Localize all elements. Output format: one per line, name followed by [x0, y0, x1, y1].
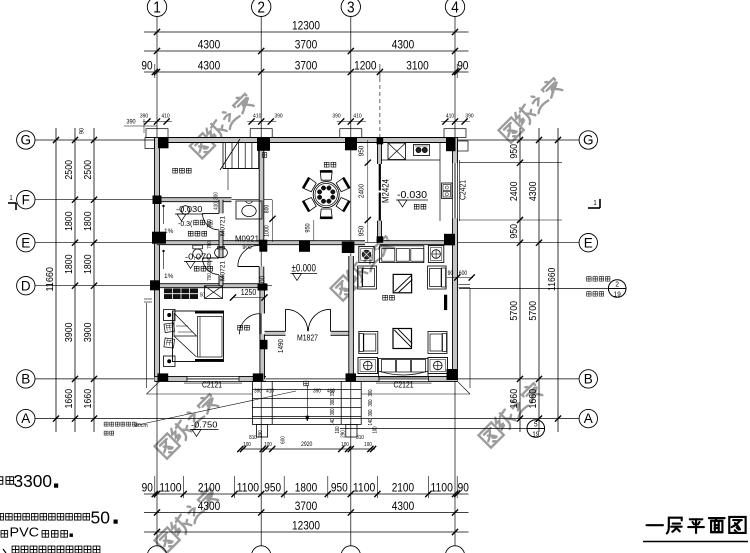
pier right of NE corner: [458, 141, 469, 151]
svg-text:12300: 12300: [292, 519, 320, 533]
window C2121 living: [376, 376, 432, 383]
label kitchen: [414, 204, 426, 209]
right dim extension stubs: [459, 163, 562, 220]
svg-text:5700: 5700: [528, 301, 539, 321]
pillow north: [164, 323, 175, 333]
porch small dims above: [254, 389, 335, 395]
toilet lower bath: [193, 245, 203, 258]
column bedroom east mid: [260, 340, 268, 350]
junction block kitchen wall at E: [377, 236, 384, 242]
svg-text:390: 390: [274, 114, 282, 120]
svg-text:100: 100: [373, 426, 379, 433]
svg-text:-0.750: -0.750: [191, 421, 218, 430]
svg-text:C2421: C2421: [459, 180, 468, 200]
kitchen sink: [442, 183, 453, 199]
svg-text:1100: 1100: [431, 480, 454, 494]
axis circle G left: [17, 131, 35, 149]
svg-text:600: 600: [459, 271, 468, 277]
svg-text:A: A: [584, 411, 593, 426]
svg-text:1200: 1200: [354, 59, 377, 73]
wall east along axis 4: [453, 138, 458, 382]
bed: [173, 311, 224, 362]
side table crosscircle BL: [358, 358, 378, 374]
interior dim 950 dining: [305, 220, 314, 241]
svg-text:290: 290: [341, 430, 347, 438]
column G2: [257, 138, 270, 151]
label M1827: [297, 334, 318, 343]
pier top axis1: [146, 129, 168, 138]
svg-text:290: 290: [258, 430, 264, 438]
interior dim 1490 hall: [276, 339, 285, 353]
svg-text:300: 300: [214, 192, 220, 200]
interior dim 800 1000: [265, 200, 276, 242]
svg-text:A: A: [21, 411, 30, 426]
note line1: [0, 471, 58, 491]
column G4: [446, 138, 456, 151]
interior dim 1250 bedroom: [230, 288, 268, 301]
section mark 1 left: [8, 195, 16, 210]
axis circle 3 top: [341, 0, 360, 17]
svg-text:1660: 1660: [528, 389, 539, 409]
svg-text:M2424: M2424: [381, 179, 391, 203]
kitchen hood/fridge: [388, 143, 406, 160]
watermark tuzhizhijia at 187.7,425.3: [154, 392, 221, 459]
label bathroom upper: [188, 231, 206, 236]
svg-text:11660: 11660: [45, 267, 56, 292]
dimension row bottom 4300-3700-4300: [144, 499, 469, 516]
svg-text:C2121: C2121: [394, 381, 414, 390]
svg-text:1%: 1%: [164, 228, 174, 235]
svg-text:4300: 4300: [392, 499, 415, 513]
svg-text:3900: 3900: [64, 322, 75, 342]
svg-text:3800: 3800: [258, 276, 267, 290]
svg-text:1800: 1800: [83, 254, 94, 274]
door M0721 upper bath: [203, 213, 220, 230]
porch steps outline: [252, 381, 361, 424]
axis circle 3 bottom: [341, 546, 360, 553]
cabinet X bedroom: [205, 286, 223, 299]
svg-text:600: 600: [281, 436, 287, 444]
column E1: [152, 232, 166, 244]
axis circle 1 bottom: [147, 546, 166, 553]
axis circle 4 top: [445, 0, 464, 17]
axis circle A right: [579, 409, 597, 427]
svg-text:1: 1: [9, 195, 12, 202]
nightstand north: [164, 310, 176, 321]
svg-text:90: 90: [458, 480, 470, 494]
svg-text:950: 950: [357, 226, 366, 237]
svg-text:390: 390: [140, 114, 148, 120]
stairs: [220, 139, 259, 190]
column B1: [158, 373, 169, 381]
svg-text:-0.030: -0.030: [397, 190, 428, 201]
dimension column right first: [509, 128, 523, 432]
label 900 M0921: [242, 244, 252, 251]
axis circle A left: [17, 409, 35, 427]
svg-text:950: 950: [357, 146, 366, 157]
watermark tuzhizhijia at 531.7,109.3: [498, 76, 565, 143]
svg-text:950: 950: [509, 144, 520, 159]
svg-text:1100: 1100: [237, 480, 260, 494]
svg-text:4300: 4300: [198, 499, 221, 513]
svg-text:2400: 2400: [357, 184, 366, 198]
label M0921 hall: [235, 234, 259, 244]
svg-text:B: B: [584, 372, 593, 387]
svg-text:410: 410: [446, 114, 454, 120]
svg-text:F: F: [22, 192, 30, 207]
watermark tuzhizhijia at 223,125: [189, 92, 256, 159]
axis line F horizontal: [35, 199, 272, 201]
svg-text:300: 300: [368, 399, 374, 406]
coffee table south: [393, 329, 412, 349]
level -0.030 upper bath: [175, 205, 203, 221]
axis line 4 vertical: [454, 17, 456, 546]
svg-text:950: 950: [305, 223, 312, 233]
svg-text:4300: 4300: [528, 181, 539, 201]
label M2424 kitchen: [381, 179, 391, 203]
label living room: [383, 295, 395, 300]
svg-text:1250: 1250: [241, 288, 257, 297]
svg-text:M0921: M0921: [235, 234, 259, 244]
svg-text:G: G: [21, 133, 32, 148]
dimension row bottom sub: [142, 476, 470, 498]
note porch protrusion: [104, 391, 296, 435]
pier top axis2: [250, 129, 272, 138]
svg-text:410: 410: [266, 389, 274, 395]
axis line D horizontal: [35, 285, 272, 287]
svg-text:1000: 1000: [265, 225, 271, 237]
svg-text:1800: 1800: [83, 211, 94, 231]
porch down arrow: [304, 381, 309, 421]
washbasin hall nook: [236, 201, 262, 219]
armchair NW: [358, 266, 377, 289]
axis line G horizontal: [35, 139, 579, 141]
axis line B horizontal: [35, 378, 579, 380]
window C2121 bedroom: [184, 376, 242, 383]
svg-text:100: 100: [341, 442, 349, 448]
label C2421 kitchen: [459, 180, 468, 200]
wall bedroom east: [260, 286, 265, 379]
porch dims below: [237, 430, 376, 452]
wall hallway west bathrooms east: [219, 200, 223, 286]
apron dim 90-600: [447, 271, 475, 281]
svg-text:19: 19: [532, 430, 539, 439]
svg-text:410: 410: [161, 114, 169, 120]
label C2121 living: [394, 381, 414, 390]
svg-text:4300: 4300: [392, 38, 415, 52]
pillow south: [164, 338, 175, 348]
svg-text:300: 300: [330, 398, 336, 405]
axis line 1 vertical: [156, 17, 158, 546]
svg-text:4300: 4300: [198, 38, 221, 52]
coffee table north: [393, 274, 412, 292]
svg-text:100: 100: [364, 442, 372, 448]
axis circle 1 top: [147, 0, 166, 17]
stairs small dims: [209, 192, 220, 228]
kitchen stove: [414, 145, 430, 156]
svg-text:1660: 1660: [64, 389, 75, 409]
label -0.3 structure: [178, 220, 209, 228]
svg-text:390: 390: [254, 389, 262, 395]
dimension row top 12300: [144, 19, 469, 55]
top pier dims axis2: [247, 114, 282, 125]
dining table with chairs: [303, 171, 350, 218]
svg-text:E: E: [21, 235, 30, 250]
svg-text:390: 390: [368, 389, 374, 396]
column E4: [444, 234, 455, 246]
watermark tuzhizhijia at 511.7,414.3: [478, 381, 545, 448]
svg-text:1800: 1800: [64, 254, 75, 274]
slope 1% upper: [163, 205, 174, 235]
label shang up: [262, 153, 267, 158]
column G3: [345, 138, 357, 151]
svg-text:800: 800: [265, 204, 271, 213]
label bathroom lower: [194, 266, 212, 271]
svg-text:19: 19: [614, 290, 621, 299]
svg-text:3900: 3900: [83, 322, 94, 342]
svg-text:300: 300: [330, 408, 336, 415]
svg-text:1: 1: [153, 0, 161, 16]
svg-text:90: 90: [79, 128, 86, 135]
side table plant TL: [359, 246, 374, 262]
svg-text:910: 910: [207, 219, 213, 227]
pier top axis3: [340, 129, 362, 138]
door M0921 hall: [238, 245, 259, 266]
label storage room: [173, 168, 191, 173]
svg-text:410: 410: [327, 389, 335, 395]
svg-text:410: 410: [214, 202, 220, 210]
svg-text:1%: 1%: [164, 273, 174, 280]
apron west: [144, 299, 252, 394]
column E2: [259, 240, 267, 252]
dimension row top sub: [141, 59, 468, 140]
washbasin lower bath: [215, 246, 228, 257]
top pier dims axis1: [140, 114, 172, 125]
svg-text:4: 4: [451, 0, 459, 16]
watermark tuzhizhijia at 187.7,519.3: [154, 486, 221, 553]
note line2: [0, 508, 118, 528]
svg-text:50: 50: [91, 508, 111, 528]
axis line A horizontal: [35, 418, 579, 420]
svg-text:B: B: [21, 372, 30, 387]
dimension column right second: [528, 128, 542, 432]
svg-text:2100: 2100: [198, 480, 221, 494]
svg-text:5700: 5700: [509, 301, 520, 321]
axis circle B left: [17, 370, 35, 388]
wall south bedroom along B: [155, 376, 267, 381]
label M0721 lower: [220, 261, 227, 281]
wall interior D bedroom north: [157, 284, 266, 288]
dimension column left x=94.0: [83, 128, 97, 432]
svg-text:140: 140: [368, 418, 374, 425]
svg-text:3700: 3700: [295, 38, 318, 52]
svg-text:100: 100: [243, 442, 251, 448]
svg-text:1800: 1800: [64, 211, 75, 231]
armchair NE: [428, 266, 447, 289]
loveseat north: [380, 246, 424, 263]
column B2: [253, 373, 263, 381]
svg-text:950: 950: [331, 480, 348, 494]
svg-text:90: 90: [457, 59, 469, 73]
column B4: [447, 369, 458, 380]
wall interior axis2 vertical: [259, 140, 264, 286]
svg-text:390: 390: [126, 119, 136, 126]
svg-text:950: 950: [264, 480, 281, 494]
axis circle B right: [579, 370, 597, 388]
axis line 3 vertical: [350, 17, 352, 546]
door bedroom: [239, 314, 260, 335]
top pier dims axis3: [332, 114, 365, 125]
column D2: [258, 284, 268, 291]
svg-text:140: 140: [330, 418, 336, 425]
label C2121 bedroom: [202, 381, 222, 390]
level -0.070 lower bath: [184, 253, 212, 269]
svg-text:D: D: [21, 278, 31, 293]
pier top axis4: [444, 129, 466, 138]
porch pier base right: [346, 424, 357, 437]
wall interior E bathrooms: [157, 241, 264, 245]
svg-text:1490: 1490: [276, 339, 285, 353]
note line3: [1, 526, 73, 540]
title yiceng pingmiantu: [643, 517, 748, 542]
svg-text:90: 90: [141, 59, 153, 73]
axis circle 2 top: [252, 0, 271, 17]
axis line 2 vertical: [260, 17, 262, 546]
axis circle D left: [17, 277, 35, 295]
apron east: [362, 285, 471, 395]
wardrobe hatched: [164, 289, 205, 300]
junction block kitchen wall at G: [377, 138, 384, 145]
side table crosscircle BR: [428, 358, 448, 374]
svg-text:1660: 1660: [83, 389, 94, 409]
wall interior F storage: [157, 198, 232, 202]
svg-text:2500: 2500: [83, 160, 94, 180]
svg-text:3700: 3700: [295, 499, 318, 513]
column F1: [153, 196, 162, 205]
svg-text:3700: 3700: [295, 59, 318, 73]
level -0.750 porch: [190, 421, 218, 437]
detail bubble 5/19: [340, 420, 545, 439]
svg-text:810: 810: [249, 435, 257, 441]
svg-text:PVC: PVC: [10, 526, 40, 540]
axis circle G right: [579, 131, 597, 149]
svg-text:3300: 3300: [14, 471, 53, 491]
dimension column left total 11660: [45, 128, 59, 432]
dimension column right total 11660: [547, 128, 561, 432]
svg-text:100: 100: [335, 426, 341, 433]
dimension column left x=75.0: [64, 128, 78, 432]
svg-text:M0721: M0721: [220, 261, 227, 281]
svg-text:2400: 2400: [509, 181, 520, 201]
svg-text:390: 390: [332, 114, 340, 120]
label bedroom: [238, 325, 250, 330]
kitchen counter: [382, 143, 441, 222]
svg-text:900: 900: [242, 244, 252, 251]
svg-text:12300: 12300: [292, 19, 320, 33]
interior dim 900 upper bath: [207, 219, 213, 281]
pier left of NW corner: [145, 138, 155, 149]
armchair SW: [359, 332, 378, 354]
wall living west axis3: [349, 243, 354, 379]
level -0.030 kitchen: [396, 190, 428, 207]
svg-text:1660: 1660: [509, 389, 520, 409]
wall interior E hall-dining: [259, 241, 351, 245]
axis circle E left: [17, 234, 35, 252]
door M0721 lower bath: [203, 258, 220, 275]
svg-text:300: 300: [207, 260, 213, 268]
svg-text:700: 700: [207, 273, 213, 281]
axis circle E right: [579, 234, 597, 252]
porch tiny dims columns: [330, 389, 379, 433]
svg-text:±0.000: ±0.000: [292, 263, 317, 275]
window C2421 kitchen east: [453, 160, 460, 221]
svg-text:4300: 4300: [198, 59, 221, 73]
svg-text:2: 2: [257, 0, 265, 16]
column E mid: [299, 240, 310, 252]
porch pier base left: [256, 424, 267, 437]
svg-text:100: 100: [264, 442, 272, 448]
interior dims kitchen west: [357, 140, 371, 242]
svg-text:1100: 1100: [353, 480, 376, 494]
column G1: [158, 138, 169, 149]
watermark tuzhizhijia at 363.7,267.3: [330, 234, 397, 301]
AC unit east wall: [444, 295, 447, 310]
sofa south: [379, 359, 429, 378]
svg-text:-0.3(: -0.3(: [178, 221, 193, 228]
svg-text:390: 390: [313, 389, 321, 395]
interior dim 3800 hall: [258, 276, 267, 290]
svg-text:2100: 2100: [392, 480, 415, 494]
svg-text:E: E: [584, 235, 593, 250]
svg-text:3: 3: [347, 0, 355, 16]
dimension row bottom 12300: [144, 519, 469, 536]
axis circle F left: [17, 191, 35, 209]
svg-text:11660: 11660: [547, 267, 558, 291]
column B3: [346, 373, 357, 381]
svg-text:5: 5: [534, 420, 538, 429]
svg-text:3100: 3100: [406, 59, 429, 73]
svg-text:1100: 1100: [159, 480, 182, 494]
door M2424 kitchen sliding: [379, 164, 381, 221]
svg-text:1800: 1800: [295, 480, 318, 494]
side table crosscircle TR: [428, 246, 443, 263]
svg-text:300: 300: [368, 409, 374, 416]
svg-text:700: 700: [207, 241, 213, 249]
nightstand south: [164, 356, 176, 367]
svg-text:M1827: M1827: [297, 334, 318, 343]
wall south living along B: [346, 376, 458, 381]
axis circle 2 bottom: [252, 546, 271, 553]
svg-text:C2121: C2121: [202, 381, 222, 390]
top pier dims axis4: [441, 114, 474, 125]
column E3: [342, 242, 355, 254]
svg-text:2: 2: [615, 280, 619, 289]
label dining room: [324, 162, 336, 167]
svg-text:310: 310: [356, 435, 364, 441]
svg-text:90: 90: [142, 480, 154, 494]
svg-text:M0721: M0721: [220, 216, 227, 236]
slope 1% lower: [163, 250, 174, 280]
note line4 cut: [3, 546, 100, 553]
label M0721 upper: [220, 216, 227, 236]
level pm0.000 hall: [291, 263, 318, 281]
wall interior E kitchen south: [351, 241, 455, 245]
svg-text:2920: 2920: [301, 442, 313, 448]
left small dims 390/90: [79, 119, 158, 135]
wall hall south M1827: [265, 331, 351, 335]
wall west along axis 1: [155, 138, 160, 382]
armchair SE: [428, 332, 447, 354]
